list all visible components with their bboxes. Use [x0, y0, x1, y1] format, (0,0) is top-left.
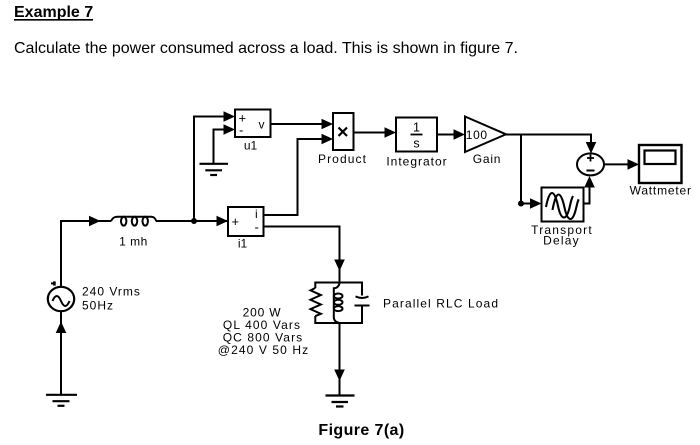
capacitor in load [355, 283, 370, 324]
label load values [218, 306, 309, 358]
gain block 100 [465, 117, 506, 153]
svg-text:100: 100 [466, 128, 488, 142]
svg-text:-: - [239, 123, 243, 138]
transport delay block [542, 188, 584, 222]
wire source bottom to ground with up arrow [56, 311, 67, 395]
node junction on main wire [191, 218, 197, 224]
wire branch to transport delay [521, 135, 542, 209]
ac source V1 [48, 281, 74, 311]
svg-text:50Hz: 50Hz [82, 299, 114, 313]
svg-text:Gain: Gain [473, 152, 502, 166]
svg-text:1: 1 [413, 121, 420, 135]
wattmeter block [639, 145, 682, 183]
inductor L1 [111, 217, 156, 221]
wire transport delay to sum bottom input [584, 176, 595, 204]
wire product to integrator [354, 127, 397, 138]
node at transport delay corner [518, 201, 524, 207]
svg-text:240 Vrms: 240 Vrms [82, 285, 141, 299]
wire rlc load to ground [334, 323, 345, 395]
current measurement block i1 [228, 207, 264, 236]
wire u1 v output to product input 1 [271, 119, 334, 130]
ground under u1 [200, 164, 229, 175]
inductor in load [334, 283, 340, 324]
wire i1 minus output down to rlc load [264, 227, 345, 283]
svg-text:Wattmeter: Wattmeter [630, 184, 692, 198]
svg-text:Parallel RLC Load: Parallel RLC Load [383, 296, 499, 310]
svg-text:u1: u1 [244, 139, 258, 153]
svg-text:+: + [232, 214, 240, 229]
wire ground to u1 minus input [214, 124, 236, 163]
svg-text:Example 7: Example 7 [14, 4, 93, 21]
sum block [577, 153, 604, 175]
title Example 7 [14, 4, 93, 21]
ground under rlc load [326, 396, 355, 407]
svg-text:Calculate the power consumed a: Calculate the power consumed across a lo… [14, 40, 518, 57]
svg-text:1 mh: 1 mh [119, 235, 148, 249]
wire gain output to sum top input [506, 135, 596, 154]
wire main horizontal from source to i1 [61, 216, 228, 287]
ground under source [46, 395, 77, 406]
wire i1 i output to product input 2 [264, 134, 334, 215]
label Transport Delay [531, 223, 593, 248]
svg-text:Product: Product [318, 152, 367, 166]
label 240 Vrms 50Hz [82, 285, 141, 313]
integrator block [396, 118, 437, 152]
wire junction to u1 plus input [194, 111, 235, 221]
svg-text:Figure 7(a): Figure 7(a) [318, 422, 404, 439]
svg-text:Delay: Delay [543, 234, 580, 248]
resistor in load [311, 288, 321, 316]
svg-text:-: - [255, 220, 259, 235]
svg-text:i1: i1 [238, 237, 248, 251]
wire sum to wattmeter [604, 159, 639, 170]
product block [333, 113, 354, 150]
svg-text:@240 V 50 Hz: @240 V 50 Hz [218, 343, 309, 357]
parallel rlc load [311, 283, 370, 324]
wire integrator to gain [437, 129, 465, 140]
svg-text:s: s [413, 137, 419, 151]
svg-text:v: v [259, 118, 265, 132]
svg-text:Integrator: Integrator [386, 154, 447, 168]
voltage measurement block u1 [235, 110, 271, 138]
